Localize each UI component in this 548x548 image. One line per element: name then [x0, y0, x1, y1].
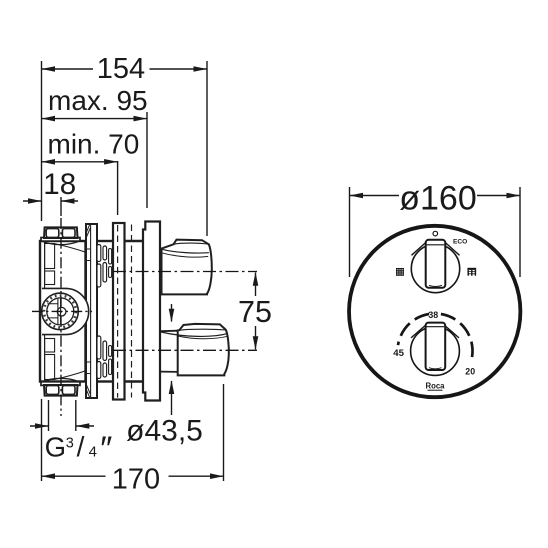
hidden dashed line mid	[131, 225, 133, 398]
arrow 18 right	[61, 198, 75, 204]
arrow d43.5 up	[169, 381, 175, 395]
top knob centerline	[113, 271, 257, 273]
extension line max95 right	[146, 112, 148, 208]
body interior box lower 2	[45, 355, 55, 380]
cartridge chords	[47, 304, 58, 318]
dimension texts	[43, 53, 476, 496]
svg-text:3: 3	[66, 436, 74, 452]
bottom inlet fitting flange arc	[42, 378, 80, 382]
svg-text:ø160: ø160	[399, 180, 477, 218]
svg-text:38: 38	[428, 310, 438, 320]
screw slots column 2 top	[103, 246, 107, 260]
top knob skirt curve 1	[162, 249, 209, 253]
body interior box upper 1	[45, 244, 55, 269]
P1 bottom hatch	[87, 385, 91, 397]
body edge between P2 and escutcheon top	[125, 240, 144, 242]
temperature dial arc right	[441, 314, 473, 362]
front plate circle	[349, 226, 520, 397]
svg-text:45: 45	[393, 348, 404, 359]
arrow min70 right	[104, 159, 118, 165]
P2 hidden dashed line	[117, 225, 119, 398]
top fitting thread insert right	[62, 229, 75, 238]
arrow max95 left	[42, 116, 56, 122]
svg-text:ø43,5: ø43,5	[126, 415, 203, 448]
svg-text:Roca: Roca	[425, 381, 445, 390]
extension line min70 right	[117, 161, 119, 215]
top knob side view body	[162, 240, 212, 295]
escutcheon plate	[143, 222, 160, 401]
arrow 75 down	[253, 336, 259, 350]
svg-text:20: 20	[465, 367, 475, 377]
bottom knob circle	[411, 327, 460, 376]
body interior floor curve	[55, 371, 85, 379]
svg-text:″: ″	[100, 430, 112, 468]
arrowheads	[28, 66, 520, 479]
bottom knob handle	[426, 323, 446, 370]
svg-text:170: 170	[112, 464, 160, 496]
leader line d43.5 lower	[171, 381, 173, 415]
indicator O	[433, 231, 438, 236]
screw slots column 1 bottom	[97, 336, 101, 359]
P1 top hatch	[87, 225, 91, 237]
bottom knob side view body	[178, 324, 229, 376]
P1 ticks	[86, 249, 91, 374]
extension line 170 right	[223, 384, 225, 481]
extension line d160 left	[349, 187, 351, 277]
temperature dial arc left	[398, 314, 429, 345]
cartridge knurl hatch	[44, 295, 76, 327]
mounting plate P2	[113, 223, 125, 400]
slot zone top edge	[97, 240, 113, 242]
cartridge boss (D shape)	[42, 288, 89, 334]
bottom knob neck bottom	[161, 371, 178, 373]
svg-text:ECO: ECO	[453, 239, 467, 246]
cartridge inner circle	[47, 298, 74, 325]
cartridge center circle	[57, 307, 66, 316]
dimension line 154	[42, 68, 94, 70]
svg-text:18: 18	[43, 168, 76, 201]
body edge between P2 and escutcheon bottom	[125, 380, 144, 382]
cartridge screw slot bar	[58, 299, 61, 325]
extension line G3/4 left	[48, 400, 50, 431]
body interior box upper 2	[45, 271, 55, 285]
svg-text:4: 4	[89, 443, 97, 460]
arrow G34 left	[35, 423, 49, 429]
bottom inlet fitting flange	[41, 382, 80, 386]
extension line left datum lower (170)	[41, 399, 43, 481]
svg-text:min. 70: min. 70	[48, 129, 140, 160]
arrow 18 left	[28, 198, 42, 204]
bottom fitting thread insert left	[46, 386, 59, 395]
extension line 154 right	[206, 61, 208, 236]
extension line d160 right	[519, 187, 521, 277]
top knob handle cap line	[427, 244, 445, 246]
svg-text:154: 154	[97, 53, 145, 85]
top inlet fitting cap	[44, 227, 78, 238]
bottom knob cap base line	[179, 329, 226, 330]
svg-text:/: /	[77, 431, 85, 462]
bottom knob centerline	[113, 349, 257, 351]
front view small labels	[393, 239, 475, 391]
top knob handle	[426, 240, 446, 288]
arrow 154 right	[194, 66, 208, 72]
body interior ceiling curve	[55, 244, 85, 252]
body interior box lower 1	[45, 339, 55, 353]
dimension 75 line bottom	[255, 326, 257, 350]
svg-text:75: 75	[238, 295, 272, 329]
bottom knob handle cap line	[427, 326, 445, 328]
screw slots column 1 top	[97, 245, 101, 262]
dimension 18 arrow tails	[23, 200, 42, 202]
dimension line min70	[42, 161, 118, 163]
arrow d160 left	[350, 193, 364, 199]
leader line d43.5 upper	[171, 304, 173, 322]
dimension 75 line top	[255, 273, 257, 297]
dimension line d160	[350, 195, 400, 197]
arrow d43.5 down	[169, 309, 175, 323]
mounting plate P1	[86, 224, 97, 398]
dimension line 170	[42, 475, 106, 477]
arrow d160 right	[507, 193, 521, 199]
top knob skirt curve 2	[162, 253, 209, 257]
right spray icon	[467, 268, 476, 276]
bottom knob skirt curve 2	[178, 336, 228, 339]
horizontal centerline of cartridge	[32, 310, 92, 312]
top knob circle	[411, 244, 459, 292]
screw slots column 2 bottom	[103, 341, 107, 361]
arrow 154 left	[42, 66, 56, 72]
slot zone bottom edge	[97, 380, 113, 382]
bottom inlet fitting cap	[44, 385, 78, 396]
valve body outline	[40, 241, 86, 382]
bottom knob skirt diagonals	[411, 325, 459, 338]
bottom knob handle bottom arc	[429, 368, 442, 369]
bottom fitting thread insert right	[62, 386, 75, 395]
arrow 170 right	[210, 473, 224, 479]
svg-text:max. 95: max. 95	[48, 85, 148, 116]
svg-text:G: G	[45, 432, 66, 463]
vertical centerline of inlets and cartridge	[60, 218, 62, 416]
top knob handle bottom arc	[429, 285, 442, 286]
top fitting thread insert left	[46, 229, 59, 238]
top inlet fitting flange	[41, 238, 80, 242]
top knob skirt diagonals	[412, 243, 460, 256]
valve body inner left wall	[44, 242, 46, 380]
screw slots column 3 top	[109, 249, 112, 265]
dimension G3/4 arrow tails	[30, 425, 49, 427]
P1 inner line	[90, 225, 92, 397]
top inlet fitting flange arc	[42, 241, 80, 245]
screw slots column 3 bottom	[109, 346, 112, 357]
bottom knob skirt curve	[161, 332, 228, 336]
arrow G34 right	[76, 423, 90, 429]
left spray icon	[396, 268, 404, 276]
bottom knob neck top	[161, 330, 178, 333]
extension line 18 right	[60, 197, 62, 216]
arrow 75 up	[253, 272, 259, 286]
arrow max95 right	[134, 116, 148, 122]
extension line G3/4 right	[75, 400, 77, 431]
top knob cap base line	[174, 243, 209, 244]
extension line left datum x41	[41, 61, 43, 221]
arrow min70 left	[42, 159, 56, 165]
cartridge knurled ring outer	[42, 293, 79, 330]
dimension line max95	[42, 118, 148, 120]
arrow 170 left	[42, 473, 56, 479]
